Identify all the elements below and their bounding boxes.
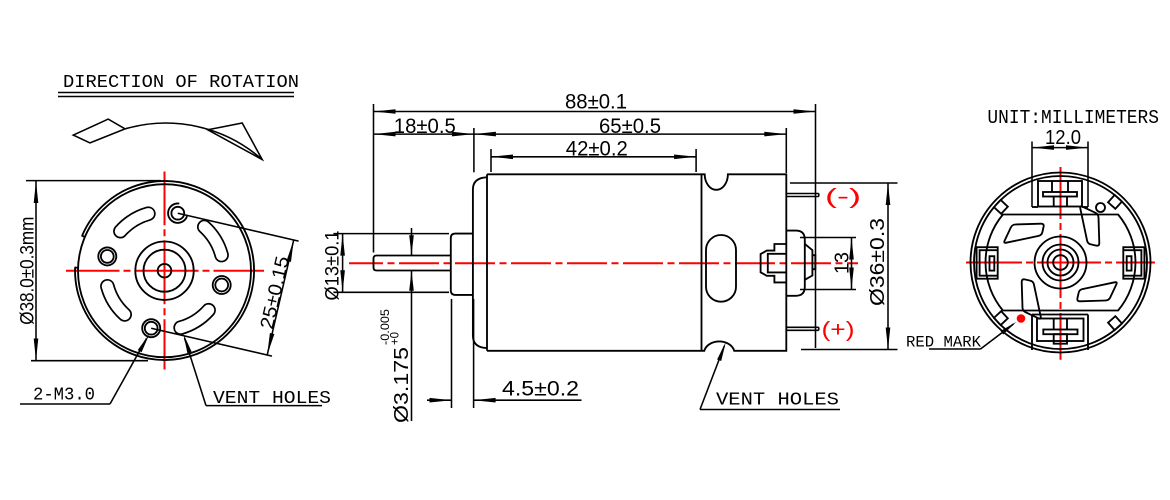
terminal (-) tab (786, 194, 819, 197)
centerline (side view) (349, 262, 858, 264)
svg-text:4.5±0.2: 4.5±0.2 (502, 378, 579, 401)
motor shaft (374, 256, 451, 271)
red mark dot (1017, 314, 1026, 323)
svg-text:(-): (-) (825, 186, 861, 209)
side tab (left) (977, 247, 998, 279)
dimension D13 +/-0.1 collar diameter (323, 231, 450, 301)
svg-text:88±0.1: 88±0.1 (565, 91, 627, 114)
dimension 18 +/-0.5 shaft length (374, 115, 474, 172)
motor can flange arc with crimp gap (74, 181, 254, 360)
svg-text:Ø13±0.1: Ø13±0.1 (323, 231, 344, 301)
end bell outline with vent notches (702, 174, 787, 350)
brush cap block (786, 231, 805, 296)
svg-text:DIRECTION OF ROTATION: DIRECTION OF ROTATION (63, 73, 299, 93)
bearing collar (451, 234, 473, 295)
svg-text:Ø36±0.3: Ø36±0.3 (867, 218, 889, 306)
side tab (right) (1123, 247, 1144, 279)
small hole near top-right rim (1096, 203, 1105, 212)
dimension 12.0 brush housing width (1032, 127, 1088, 150)
motor end-cap circle (78, 184, 251, 357)
rotation direction curved arrow (73, 119, 262, 160)
terminal (+) tab (786, 327, 819, 330)
end housing outline (rounded square) (986, 215, 1136, 311)
center bearing rings (1035, 237, 1087, 289)
label VENT HOLES (side view) with leader (700, 342, 840, 411)
vent windows (pinwheel petals) (1004, 206, 1116, 318)
label RED MARK with leader (906, 322, 1016, 352)
brush housing (top) with terminal (1032, 142, 1088, 208)
dimension 13 terminal spacing (800, 238, 856, 290)
svg-text:Ø3.175: Ø3.175 (391, 347, 413, 423)
svg-text:Ø38.0±0.3mm: Ø38.0±0.3mm (18, 217, 39, 325)
dimension 42 +/-0.2 can length (491, 138, 696, 173)
svg-text:12.0: 12.0 (1045, 127, 1081, 149)
svg-text:65±0.5: 65±0.5 (599, 115, 661, 138)
back outer circles (971, 173, 1151, 353)
svg-text:(+): (+) (822, 319, 855, 342)
center boss circles (135, 242, 193, 300)
svg-text:13: 13 (832, 252, 854, 274)
centerline crosshair (back view) (966, 167, 1155, 360)
svg-text:18±0.5: 18±0.5 (394, 115, 456, 138)
dimension D3.175 shaft diameter (378, 228, 414, 423)
vent slots (front) (107, 214, 221, 328)
label 2-M3.0 with leader (20, 334, 150, 406)
svg-text:VENT HOLES: VENT HOLES (716, 391, 839, 411)
motor can body (487, 174, 702, 350)
label VENT HOLES (front view) with leader (183, 334, 331, 410)
rear bearing boss (castle profile) (761, 244, 787, 282)
title: DIRECTION OF ROTATION (58, 73, 299, 97)
dimension D36 +/-0.3 end bell diameter (790, 183, 898, 350)
centerline crosshair (left view) (66, 172, 264, 370)
brush housing (bottom) with terminal (1032, 315, 1088, 351)
svg-text:-0.005: -0.005 (378, 309, 392, 345)
can left crimp rim (473, 177, 487, 348)
dimension 88 +/-0.1 overall length (374, 91, 816, 349)
svg-text:2-M3.0: 2-M3.0 (33, 386, 95, 406)
mounting screw holes 2-M3.0 and pilot holes (98, 203, 230, 337)
dimension D38.0 +/-0.3mm (18, 181, 162, 361)
dimension 4.5 +/-0.2 collar protrusion (427, 299, 582, 408)
vent hole (side view, stadium slot) (706, 235, 736, 302)
dimension 25 +/-0.15 between screw holes (151, 213, 298, 356)
svg-text:UNIT:MILLIMETERS: UNIT:MILLIMETERS (987, 107, 1159, 129)
dimension 65 +/-0.5 body length (474, 115, 786, 173)
rear shaft tip (805, 244, 816, 280)
crimp notch squares on rim (994, 195, 1122, 330)
svg-text:42±0.2: 42±0.2 (566, 138, 628, 161)
